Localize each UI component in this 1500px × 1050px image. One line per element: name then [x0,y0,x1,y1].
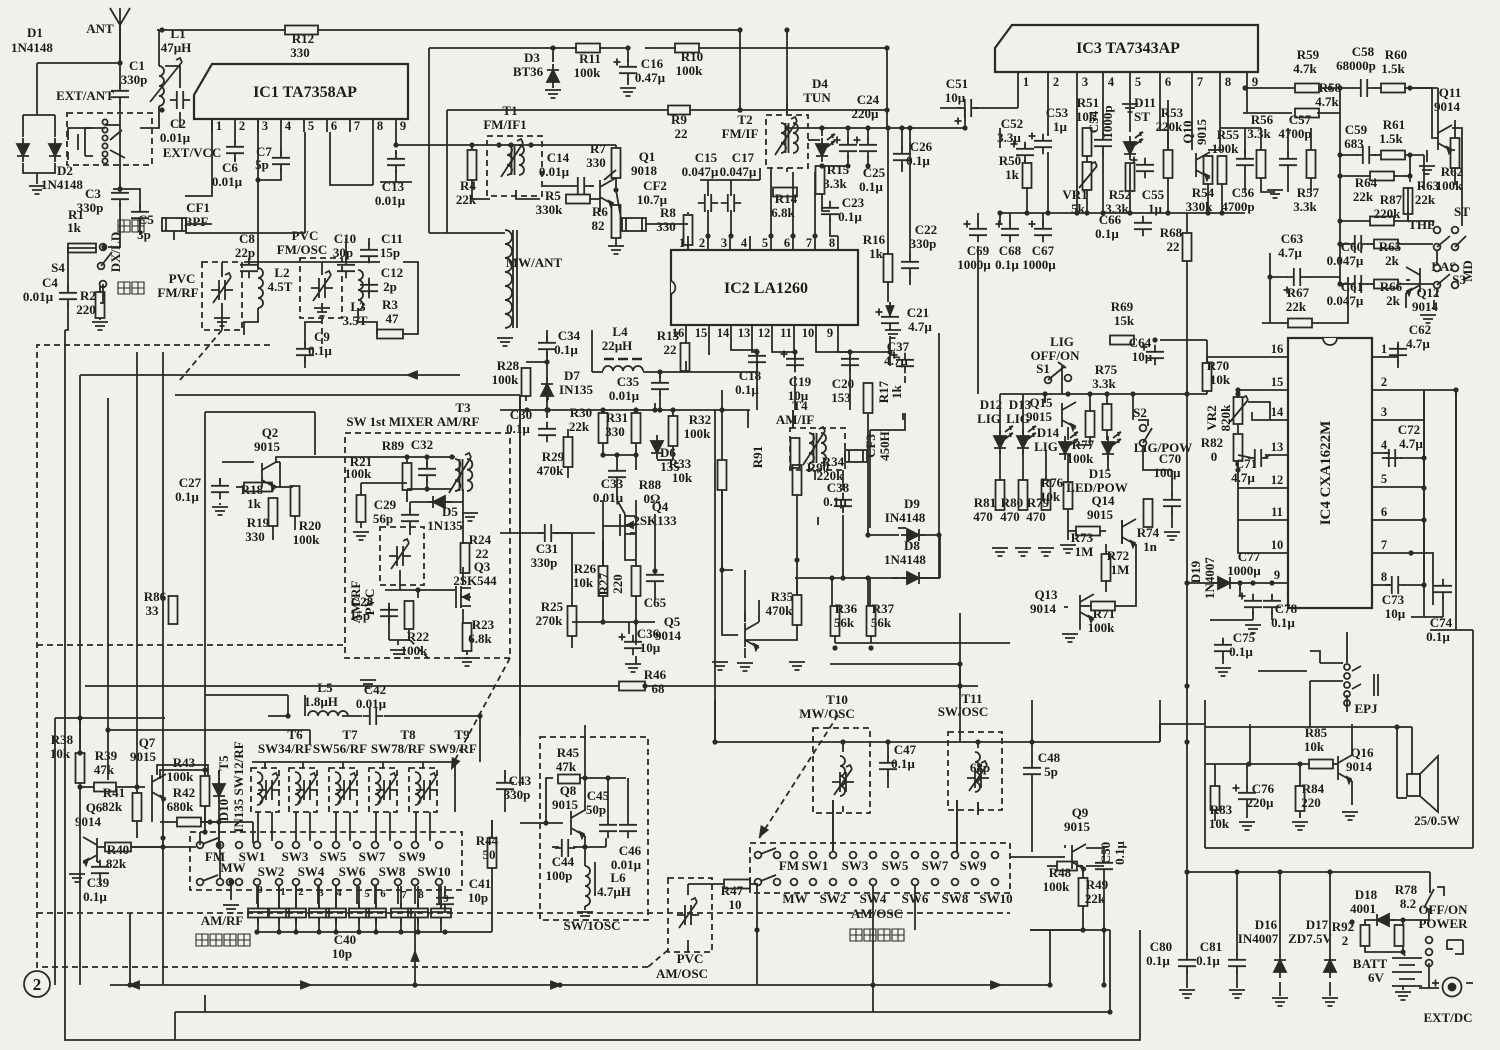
wire [1423,563,1425,585]
junction [614,452,619,457]
svg-text:R89: R89 [382,438,405,453]
IC4 left pin 16 [1270,356,1288,358]
wire [745,625,797,640]
resistor R67 [1288,319,1312,328]
wire [79,783,81,985]
junction [228,879,233,884]
capacitor C8 [240,258,258,278]
svg-text:BPF: BPF [184,214,209,229]
wire [1287,150,1289,155]
wire [244,308,258,335]
wire [406,457,408,463]
resistor R2 [96,292,105,318]
svg-text:Q9: Q9 [1072,805,1089,820]
capacitor C29 [401,508,419,528]
svg-text:C50: C50 [1098,842,1113,864]
wire [199,832,201,845]
svg-text:330: 330 [586,155,606,170]
wire [305,322,322,345]
svg-text:T10: T10 [826,692,848,707]
resistor R7 [612,148,621,178]
wire [1386,584,1390,586]
LED D11 ST [1124,136,1136,160]
switch bank box AM/OSC [750,843,1010,893]
junction [77,784,82,789]
svg-text:100k: 100k [684,426,712,441]
wire [221,262,223,277]
wire [1086,156,1088,162]
IC4 right pin 6 [1372,519,1390,521]
wire [714,700,716,742]
svg-text:IN135 SW12/RF: IN135 SW12/RF [231,741,246,832]
svg-text:470k: 470k [766,603,794,618]
wire [707,210,709,236]
junction [737,107,742,112]
wire [786,168,788,172]
resistor R16 [884,254,893,282]
junction [962,125,967,130]
wire [959,613,961,742]
wire [645,685,960,687]
svg-text:8: 8 [1225,75,1231,89]
wire [1026,188,1028,213]
wire [185,119,212,196]
svg-text:4.5T: 4.5T [268,279,293,294]
junction [202,829,207,834]
svg-text:L2: L2 [274,265,289,280]
wire [602,500,604,566]
svg-text:1: 1 [216,119,222,133]
junction [1327,869,1332,874]
trimmer capacitor C40-9 [431,909,451,918]
wire [309,730,311,745]
wire [1222,640,1224,642]
svg-text:C15: C15 [695,150,718,165]
svg-text:THE: THE [1408,217,1435,232]
capacitor C53 (electrolytic) [1034,134,1052,154]
resistor R47 [724,880,750,889]
junction [373,929,378,934]
wire [1351,724,1353,755]
svg-text:12: 12 [758,326,771,340]
junction [1080,927,1085,932]
diode D7 IN135 [541,378,553,402]
wire [1167,178,1169,213]
svg-text:Q4: Q4 [652,499,669,514]
svg-text:330: 330 [656,219,676,234]
junction [1421,582,1426,587]
wire [956,800,958,852]
wire [831,578,833,605]
IC2 bottom pin 10 [815,325,817,340]
wire [1405,154,1424,156]
svg-text:4700p: 4700p [1278,126,1311,141]
ground [1015,548,1031,556]
svg-text:C67: C67 [1032,243,1055,258]
wire [1405,87,1438,89]
wire [546,330,548,341]
wire [1340,220,1370,222]
capacitor C75 [1214,638,1232,658]
svg-text:CF2: CF2 [643,178,667,193]
wire [1000,212,1245,214]
resistor R51 [1083,128,1092,156]
svg-text:PVC: PVC [169,271,196,286]
wire [99,878,101,885]
svg-text:100k: 100k [1212,141,1240,156]
wire [1106,430,1108,440]
wire [1086,865,1104,867]
resistor R14 [773,188,797,197]
junction [207,819,212,824]
wire [552,846,559,848]
wire [1461,210,1463,226]
svg-text:R8: R8 [660,205,676,220]
wire [747,410,749,428]
capacitor C1 [111,84,129,104]
svg-text:2k: 2k [1385,253,1400,268]
svg-text:2: 2 [33,975,42,994]
svg-text:D18: D18 [1355,887,1378,902]
wire [317,886,319,904]
svg-text:4.7µ: 4.7µ [1278,245,1302,260]
diode D1 1N4148 [17,138,29,162]
wire [1009,213,1011,225]
svg-text:D11: D11 [1134,95,1156,110]
wire [1455,390,1457,560]
junction [652,568,657,573]
wire [65,330,1140,1040]
transistor Q7 9015 [152,774,166,800]
svg-text:MW: MW [220,860,245,875]
svg-text:220: 220 [76,302,96,317]
wire [1258,670,1307,672]
junction [868,645,873,650]
wire [909,273,911,285]
svg-text:C38: C38 [827,480,850,495]
IC3 pin 2 [1047,72,1049,100]
wire [358,308,377,334]
wire [1219,100,1221,150]
wire [999,128,1001,148]
IC2 top pin 5 [770,236,772,250]
resistor R40 [105,843,131,852]
wire [1042,213,1044,225]
svg-text:FM/IF: FM/IF [722,126,759,141]
svg-text:0.1µ: 0.1µ [1196,953,1220,968]
wire [1390,553,1433,605]
wire [603,621,655,623]
wire [1022,394,1024,434]
wire [491,820,493,838]
wire [1079,619,1081,630]
wire [721,410,723,460]
wire [462,609,464,623]
wire [832,800,834,852]
svg-text:SW3: SW3 [282,849,309,864]
wire [173,231,175,240]
svg-text:0.1µ: 0.1µ [1229,644,1253,659]
svg-text:1k: 1k [889,384,904,399]
resistor R28 [522,368,531,396]
wire [1171,470,1173,495]
wire [186,223,212,225]
wire [552,48,554,62]
svg-text:22: 22 [675,126,688,141]
ground [577,912,593,920]
junction [1234,869,1239,874]
junction [160,844,165,849]
svg-text:270k: 270k [536,613,564,628]
dashed diagonal PVC FM/OSC link [321,318,323,345]
wire [1186,583,1188,872]
IC4 right pin 2 [1372,389,1390,391]
wire [889,302,891,312]
capacitor C54 [1094,133,1112,153]
wire [1365,946,1403,952]
resistor R46 [619,682,645,691]
junction [333,929,338,934]
wire [23,163,55,173]
wire [1077,865,1083,867]
junction [1045,210,1050,215]
svg-text:6: 6 [784,236,790,250]
wire [600,47,628,49]
svg-text:9015: 9015 [254,439,281,454]
IC4 left pin 10 [1270,552,1288,554]
wire [1238,389,1270,391]
wire [1204,700,1206,848]
svg-text:R75: R75 [1095,362,1118,377]
capacitor C26 [893,147,911,167]
svg-text:50p: 50p [586,802,606,817]
junction [1107,1009,1112,1014]
wire [901,164,903,172]
wire [740,109,887,111]
wire [119,25,121,87]
wire [160,821,177,823]
resistor R17 [864,383,873,413]
wire [756,886,758,985]
wire [1244,128,1246,155]
junction [794,557,799,562]
wire [887,774,889,788]
wire [591,330,593,372]
svg-text:C6: C6 [222,160,238,175]
shield box T3 / SW 1st MIXER [345,433,510,658]
wire [1252,595,1254,597]
resistor R23 [463,623,472,651]
wire [1436,289,1438,296]
diode D3 BT36 [547,64,559,88]
junction [216,842,221,847]
wire [360,483,362,495]
wire [472,180,490,199]
wire [407,488,452,490]
wire [659,393,661,410]
capacitor C36 (electrolytic) [624,635,642,655]
IC2 bottom pin 14 [730,325,732,340]
capacitor C60 [1348,235,1368,253]
svg-text:25/0.5W: 25/0.5W [1414,813,1460,828]
wire [97,861,100,863]
junction [1337,152,1342,157]
wire [345,238,347,262]
wire [446,501,463,503]
wire [236,486,244,488]
junction [657,407,662,412]
resistor R89 [403,463,412,490]
capacitor C46 [619,818,637,838]
wire [1279,872,1281,954]
svg-text:0.1µ: 0.1µ [175,489,199,504]
svg-text:22p: 22p [235,245,255,260]
wire [635,410,637,413]
svg-text:D7: D7 [564,368,580,383]
junction [657,369,662,374]
svg-text:R64: R64 [1355,175,1378,190]
junction [845,125,850,130]
svg-text:LIG: LIG [1006,411,1030,426]
wire [796,560,798,595]
svg-text:BATT: BATT [1353,956,1388,971]
wire [389,639,409,641]
junction [884,45,889,50]
svg-text:2: 2 [1342,933,1349,948]
svg-text:4.7µ: 4.7µ [1231,470,1255,485]
wire [175,394,520,396]
switch bank box AM/RF [190,832,462,890]
svg-text:1n: 1n [1143,539,1158,554]
wire [204,806,206,822]
svg-text:3.5T: 3.5T [343,313,368,328]
wire [1210,619,1253,621]
svg-text:15p: 15p [380,245,400,260]
wire [832,800,834,852]
IC1 pin 7 [349,119,351,132]
wire [1402,946,1404,952]
capacitor C21 (electrolytic) [881,310,899,330]
junction [1337,173,1342,178]
wire [204,995,206,1012]
tuned circuit T8 SW78/RF [329,768,357,812]
wire [426,457,428,465]
svg-text:R60: R60 [1385,47,1407,62]
wire [722,490,733,570]
svg-text:R67: R67 [1287,285,1310,300]
resistor R22 [405,601,414,629]
IC2 bottom pin 13 [751,325,753,340]
wire [847,128,849,140]
svg-text:D1: D1 [27,25,43,40]
svg-text:SW34/RF: SW34/RF [258,741,312,756]
resistor R76 [1064,482,1073,509]
wire [584,836,586,847]
svg-text:SW56/RF: SW56/RF [313,741,367,756]
trimmer capacitor C40-6 [366,909,386,918]
junction [975,739,980,744]
svg-text:1k: 1k [1005,167,1020,182]
wire [795,577,843,579]
wire [1428,908,1430,920]
wire [977,742,979,748]
wire [685,340,687,343]
wire [731,340,757,350]
wire [1231,582,1270,584]
svg-text:0.1µ: 0.1µ [1426,629,1450,644]
wire [342,715,362,717]
junction [134,784,139,789]
capacitor C56 [1236,152,1254,172]
wire [1214,810,1216,821]
svg-text:FM/IF1: FM/IF1 [483,117,526,132]
wire [1397,360,1399,368]
svg-text:4.7k: 4.7k [1315,94,1339,109]
junction [790,233,795,238]
svg-text:SW2: SW2 [258,864,285,879]
wire [1044,394,1046,403]
wire [654,403,656,410]
wire [902,413,904,420]
tuned circuit T7 SW56/RF [289,768,317,812]
svg-text:ZD7.5V: ZD7.5V [1288,931,1332,946]
resistor R44 [488,838,497,868]
svg-text:220: 220 [610,574,625,594]
wire [1260,128,1262,150]
IC2 top pin 7 [814,236,816,250]
junction [642,683,647,688]
wire [904,376,906,383]
svg-text:6: 6 [331,119,337,133]
diode D8 1N4148 [901,572,925,584]
wire [444,886,446,894]
wire [635,500,637,566]
capacitor C27 [211,479,229,499]
FET Q3 2SK544 [456,586,471,608]
ground [69,874,85,882]
wire [272,526,274,540]
diode D18 4001 [1371,914,1395,926]
wire [1024,144,1026,148]
svg-text:C77: C77 [1238,549,1261,564]
svg-text:15: 15 [1271,375,1284,389]
IC2 bottom pin 15 [708,325,710,340]
resistor R82 [1234,434,1243,461]
junction [865,125,870,130]
wire [462,489,464,544]
svg-text:4700p: 4700p [1221,199,1254,214]
wire [1433,300,1435,310]
svg-text:SW5: SW5 [320,849,347,864]
junction [1184,869,1189,874]
wire [131,846,196,848]
dashed diagonal PVC FM/RF [180,330,222,380]
wire [1100,530,1106,532]
DC jack EXT/DC [1443,978,1462,997]
resistor R13 [681,343,690,371]
capacitor C77 (electrolytic) [1244,594,1262,614]
capacitor C80 [1178,953,1196,973]
wire [1403,952,1405,956]
svg-text:FM/OSC: FM/OSC [277,242,328,257]
wire [714,410,716,742]
resistor R32 [669,416,678,446]
wire [68,248,96,289]
wire [1423,155,1425,190]
svg-text:4: 4 [741,236,748,250]
wire [1351,781,1353,805]
svg-text:C4: C4 [42,275,58,290]
